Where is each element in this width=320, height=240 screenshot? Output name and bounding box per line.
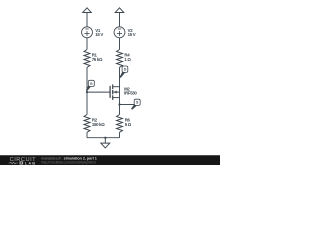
- transistor M2 body tap: [113, 91, 119, 93]
- transistor M2 channel dash middle: [112, 90, 114, 95]
- logo zigzag: [9, 162, 18, 164]
- transistor M2 channel dash top: [112, 84, 114, 89]
- transistor M2 drain tap: [113, 86, 119, 88]
- wire bottom rail: [87, 137, 120, 139]
- wire gate: [87, 91, 110, 93]
- svg-text:75 kΩ: 75 kΩ: [92, 57, 103, 62]
- svg-text:15 V: 15 V: [95, 32, 103, 37]
- wire V1 arrow stem: [86, 13, 88, 28]
- wire drain column through M2 to R6: [119, 67, 121, 114]
- svg-text:150 kΩ: 150 kΩ: [92, 122, 105, 127]
- node flag G: [86, 80, 94, 91]
- transistor M2 gate bar: [109, 86, 111, 98]
- svg-text:1 Ω: 1 Ω: [124, 57, 131, 62]
- node flag S: [131, 99, 140, 110]
- wire S stub: [120, 104, 135, 106]
- wire V2 arrow stem: [119, 13, 121, 28]
- power flag V1 (triangle up): [83, 8, 92, 13]
- svg-text:LAB: LAB: [25, 160, 36, 165]
- wire R1 down through gate node to R2: [86, 67, 88, 114]
- svg-text:D: D: [124, 68, 127, 72]
- transistor M2 channel dash bottom: [112, 95, 114, 100]
- logo chip: [20, 161, 24, 164]
- label M2: [124, 87, 137, 96]
- voltage source V2: [114, 27, 125, 38]
- node flag D: [120, 66, 128, 78]
- wire R2 to ground rail: [86, 132, 88, 137]
- wire R6 to ground rail: [119, 132, 121, 137]
- transistor M2 arrow: [113, 91, 117, 94]
- label R2: [92, 118, 105, 128]
- svg-text:G: G: [90, 82, 93, 86]
- svg-text:http://circuitlab.com/cme39bpk: http://circuitlab.com/cme39bpkjvk923: [41, 161, 96, 165]
- wire V1 to R1: [86, 38, 88, 50]
- ground stem: [104, 138, 106, 143]
- label R6: [125, 118, 132, 128]
- junction ground node: [104, 137, 106, 139]
- power flag V2 (triangle up): [115, 8, 124, 13]
- wire V2 to R4: [119, 38, 121, 50]
- transistor M2 source tap: [113, 97, 119, 99]
- ground: [101, 143, 110, 148]
- resistor R4: [117, 50, 123, 68]
- label R4: [124, 53, 131, 63]
- svg-text:IRF530: IRF530: [124, 91, 137, 96]
- resistor R2: [84, 115, 90, 133]
- junction gate node: [86, 91, 88, 93]
- svg-text:15 V: 15 V: [128, 32, 136, 37]
- svg-text:5 Ω: 5 Ω: [125, 122, 132, 127]
- label V1: [95, 28, 103, 37]
- label R1: [92, 53, 103, 63]
- voltage source V1: [82, 27, 93, 38]
- junction S node: [118, 103, 120, 105]
- resistor R6: [117, 115, 123, 133]
- label V2: [128, 28, 136, 37]
- resistor R1: [84, 50, 90, 68]
- footer bar: [0, 155, 220, 165]
